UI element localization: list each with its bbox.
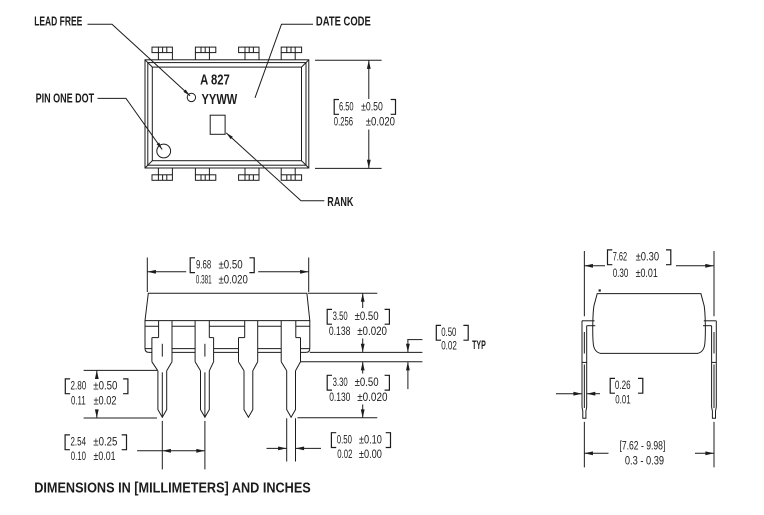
svg-text:±0.020: ±0.020 xyxy=(219,274,248,286)
body bottom edge segments between shoulders xyxy=(172,351,306,353)
pin 7 top row shoulder bar xyxy=(195,47,215,60)
lead right centerline xyxy=(713,251,715,316)
svg-text:±0.10: ±0.10 xyxy=(359,435,382,447)
dimension 2.54 extension lines (pin centers) xyxy=(161,421,163,470)
svg-text:0.50: 0.50 xyxy=(337,435,352,447)
dimension 0.50 TYP tick and arrows xyxy=(407,339,422,341)
svg-text:0.02: 0.02 xyxy=(337,449,352,461)
svg-text:DIMENSIONS IN [MILLIMETERS] AN: DIMENSIONS IN [MILLIMETERS] AND INCHES xyxy=(34,481,311,497)
dimension 7.62 line with arrows xyxy=(584,265,605,267)
dimension text 3.30 mm xyxy=(327,375,332,390)
lead 4 (front view, rightmost) xyxy=(281,321,300,418)
svg-text:0.3 - 0.39: 0.3 - 0.39 xyxy=(625,455,664,467)
svg-text:±0.50: ±0.50 xyxy=(355,377,379,389)
dimension text 7.62 mm xyxy=(608,250,613,265)
lead 1 (front view, leftmost) xyxy=(152,321,172,418)
svg-text:PIN ONE DOT: PIN ONE DOT xyxy=(36,91,95,105)
shoulder bottom line extending right xyxy=(301,361,423,363)
lead 2 (front view) xyxy=(195,321,214,418)
svg-text:0.256: 0.256 xyxy=(334,116,353,128)
dimension 9.68 extension lines xyxy=(146,258,148,293)
svg-text:0.26: 0.26 xyxy=(615,380,631,392)
dimension 2.80 extension lines xyxy=(84,369,157,371)
svg-text:±0.01: ±0.01 xyxy=(94,451,116,463)
svg-text:0.30: 0.30 xyxy=(613,268,629,280)
dimension text 0.50 lead width mm xyxy=(331,433,336,448)
svg-text:±0.01: ±0.01 xyxy=(636,268,658,280)
dimension 2.80 vertical line xyxy=(96,370,98,377)
pin 5 top row shoulder bar xyxy=(281,47,301,60)
svg-text:A 827: A 827 xyxy=(200,72,230,89)
pin 1 bottom row shoulder bar xyxy=(152,168,172,180)
svg-text:0.50: 0.50 xyxy=(441,327,456,339)
dimension 3.30 extension line bottom xyxy=(298,417,378,419)
corner bevel top-left xyxy=(145,60,152,67)
svg-text:0.10: 0.10 xyxy=(71,451,86,463)
svg-text:2.54: 2.54 xyxy=(71,437,87,449)
pin one index tick on body xyxy=(599,289,601,291)
dimension 0.50 lead width extension lines xyxy=(286,418,288,461)
svg-text:±0.25: ±0.25 xyxy=(93,437,117,449)
lead free mark circle xyxy=(187,93,195,101)
corner bevel bottom-right xyxy=(302,161,309,168)
lead left (end view) xyxy=(582,321,595,418)
svg-text:±0.020: ±0.020 xyxy=(357,326,387,338)
lead left centerline xyxy=(583,251,585,316)
pin 3 bottom row shoulder bar xyxy=(239,168,259,180)
dimension 3.50 vertical line xyxy=(362,293,364,308)
body line at seam level 326 xyxy=(145,325,310,327)
body outline (end view) xyxy=(593,294,706,354)
svg-text:±0.020: ±0.020 xyxy=(366,116,395,128)
lead 3 (front view) xyxy=(239,321,258,418)
body lower block outline xyxy=(145,321,310,353)
dimension text 2.80 mm xyxy=(65,379,70,394)
dimension 6.50 vertical line xyxy=(368,60,370,99)
dimension 9.68 line with arrows xyxy=(147,271,186,273)
svg-text:0.01: 0.01 xyxy=(615,395,630,407)
leader line DATE CODE xyxy=(255,24,313,98)
dimension 6.50 extension line bottom xyxy=(315,167,382,169)
dimension text 6.50 mm xyxy=(334,100,339,115)
body top trapezoid (front view) xyxy=(145,293,310,320)
corner bevel top-right xyxy=(302,60,309,67)
svg-text:0.138: 0.138 xyxy=(329,326,351,338)
package body outline (top view) outer xyxy=(145,60,309,168)
dimension 7.62-9.98 line with arrows xyxy=(584,452,608,454)
svg-text:9.68: 9.68 xyxy=(196,260,211,272)
svg-text:RANK: RANK xyxy=(327,195,353,209)
seating plane line extending right xyxy=(310,351,423,353)
leader line RANK xyxy=(226,133,324,201)
svg-text:0.381: 0.381 xyxy=(196,274,212,286)
svg-text:±0.30: ±0.30 xyxy=(636,252,660,264)
svg-text:3.50: 3.50 xyxy=(333,311,348,323)
leader line PIN ONE DOT xyxy=(98,98,163,149)
TOPVIEW xyxy=(34,14,395,208)
svg-text:±0.02: ±0.02 xyxy=(94,395,117,407)
dimension text 9.68 mm xyxy=(190,258,195,273)
dimension text 0.50 TYP xyxy=(436,325,441,340)
dimension 3.50 extension line top xyxy=(308,292,377,294)
pin 2 bottom row shoulder bar xyxy=(195,168,215,180)
dimension 0.26 arrows xyxy=(556,393,582,395)
pin 4 bottom row shoulder bar xyxy=(281,168,301,180)
package body inner line xyxy=(152,67,301,161)
svg-text:3.30: 3.30 xyxy=(333,377,348,389)
pin 8 top row shoulder bar xyxy=(152,47,172,60)
pin one dot xyxy=(157,144,171,158)
svg-text:6.50: 6.50 xyxy=(339,101,354,113)
svg-text:TYP: TYP xyxy=(472,340,486,352)
pin 6 top row shoulder bar xyxy=(239,47,259,60)
lead right (end view) xyxy=(703,321,716,418)
svg-text:LEAD FREE: LEAD FREE xyxy=(34,14,82,28)
dimension 3.30 vertical line xyxy=(362,362,364,374)
svg-text:[7.62 - 9.98]: [7.62 - 9.98] xyxy=(619,440,665,452)
svg-text:±0.00: ±0.00 xyxy=(359,449,382,461)
rank mark rectangle xyxy=(210,115,225,134)
svg-text:7.62: 7.62 xyxy=(613,252,627,264)
dimension text 0.26 mm xyxy=(610,378,615,393)
ENDVIEW xyxy=(556,250,716,468)
dimension text 3.50 mm xyxy=(327,309,332,324)
svg-text:±0.50: ±0.50 xyxy=(361,101,383,113)
svg-text:±0.50: ±0.50 xyxy=(219,260,243,272)
corner bevel bottom-left xyxy=(145,161,152,168)
svg-text:0.11: 0.11 xyxy=(71,395,86,407)
package body middle line xyxy=(148,63,306,166)
dimension 0.50 lead width arrows xyxy=(267,447,287,449)
svg-text:DATE CODE: DATE CODE xyxy=(316,14,371,28)
svg-text:±0.50: ±0.50 xyxy=(93,381,117,393)
dimension 2.54 line with arrows xyxy=(137,450,205,452)
dimension text 2.54 mm xyxy=(65,435,70,450)
svg-text:±0.50: ±0.50 xyxy=(355,311,379,323)
dimension 6.50 extension line top xyxy=(315,59,382,61)
leader line LEAD FREE xyxy=(88,24,191,96)
svg-text:YYWW: YYWW xyxy=(202,91,238,108)
svg-text:2.80: 2.80 xyxy=(71,381,87,393)
FRONTVIEW xyxy=(65,258,486,470)
svg-text:0.02: 0.02 xyxy=(441,340,457,352)
body line near bottom 348.6 xyxy=(145,348,309,350)
svg-text:±0.020: ±0.020 xyxy=(357,392,387,404)
svg-text:0.130: 0.130 xyxy=(329,392,350,404)
